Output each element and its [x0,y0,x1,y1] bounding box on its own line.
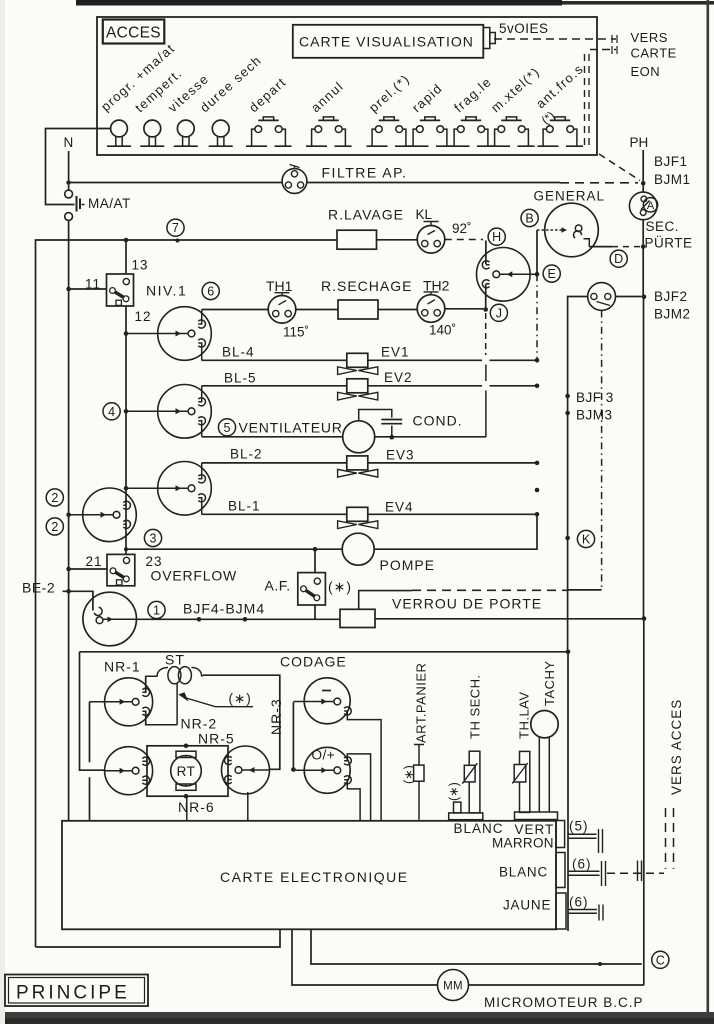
node dot under circled 7 [176,239,180,243]
thermistor TH.LAV box [514,765,526,783]
svg-text:KL: KL [416,207,433,222]
resistor R.LAVAGE [337,230,377,249]
svg-text:MA/AT: MA/AT [88,196,131,211]
cam switch M2 circle [158,385,212,439]
svg-text:NR-3: NR-3 [268,698,284,735]
push button 4 (rapid) [425,117,435,120]
dashed wire KL to H node [445,239,483,241]
push button 3 (prel.(*)) [384,117,394,120]
push button 1 (depart) [263,117,273,120]
scan artifact: left page edge strip [0,0,5,1024]
valve EV2 [347,379,368,393]
thermistor RT plates [176,751,196,757]
node junction inner box top right [566,650,571,655]
solenoid VERROU box [340,609,375,627]
node dot on C line [598,962,602,966]
board CARTE ELECTRONIQUE box [62,821,556,930]
svg-text:92˚: 92˚ [452,221,472,236]
svg-text:6: 6 [207,285,214,299]
filter FILTRE AP. symbol [282,169,307,194]
svg-text:EV3: EV3 [386,448,415,463]
svg-text:RT: RT [177,764,196,779]
wire MM to right rail [469,984,645,986]
node junction rail to M4 [66,513,71,518]
sensor TACHY circle [531,711,558,738]
wire vent to riser [375,436,486,438]
wire BE-2 into motor M5 [63,591,93,610]
svg-text:BJM1: BJM1 [654,172,691,187]
wire TH1 to resistor [296,309,338,311]
node junction bjf4 a [197,617,202,622]
wire pair (6) mid [568,871,600,875]
svg-text:115˚: 115˚ [283,325,309,340]
svg-text:(6): (6) [569,895,589,910]
pressure switch OVERFLOW contacts [123,557,129,563]
node junction cond [390,435,395,440]
arrow (*) pointer at ST tap [178,692,188,701]
node junction bus EV3 [535,461,540,466]
svg-text:BJM3: BJM3 [576,408,613,423]
node label B circled [521,209,538,226]
node junction N / filter line [66,180,71,185]
svg-text:PÜRTE: PÜRTE [645,236,693,251]
wire filtre ap. to PH [307,182,560,184]
wire right rail BJF2 to verrou [643,297,645,619]
wire pompe to bus corner [374,514,537,549]
dashed rail VERS ACCES [666,808,674,869]
svg-text:BE-2: BE-2 [22,580,55,596]
dash-dot wire E to bus [536,274,538,360]
svg-text:CARTE VISUALISATION: CARTE VISUALISATION [299,34,474,50]
motor MM circle [438,970,469,1001]
wire B-E vertical [536,230,538,274]
svg-text:K: K [582,533,591,547]
wire BL-4 line M1 to EV1 [202,359,347,361]
node junction bus EV4 [535,512,540,517]
node junction BE-2 [66,589,71,594]
svg-text:OVERFLOW: OVERFLOW [151,568,238,584]
svg-text:140˚: 140˚ [429,323,456,338]
resistor R.SECHAGE [338,300,378,319]
svg-text:VERS ACCES: VERS ACCES [669,699,684,795]
connector tab (6) mid [556,853,565,888]
svg-text:CARTE ELECTRONIQUE: CARTE ELECTRONIQUE [220,869,409,885]
svg-text:BLANC: BLANC [454,821,504,836]
sensor ART.PANIER lead [414,745,424,820]
wire verrou to right rail [375,618,644,620]
wire rail to overflow 21 [69,568,107,570]
rotary knob 2 (tempert.) [144,120,161,137]
svg-text:TACHY: TACHY [542,660,557,706]
dashed wire panel corner to PH [599,154,640,181]
svg-text:(∗): (∗) [229,691,252,706]
switch BJF2 symbol [588,283,616,311]
svg-text:NIV.1: NIV.1 [146,283,187,299]
wire inner box right edge [567,652,569,931]
connector tab (5) [556,821,565,848]
svg-text:prel.(*): prel.(*) [366,71,413,115]
svg-text:MARRON: MARRON [492,836,554,851]
svg-text:7: 7 [172,221,179,235]
sensor TH.LAV probe [520,751,530,812]
svg-text:BJF4-BJM4: BJF4-BJM4 [183,601,265,617]
cam switch M6 (sechage) circle [477,247,531,301]
wire right rail verrou to bottom [643,619,645,986]
node label C circled [652,951,669,968]
svg-text:EV4: EV4 [385,500,414,515]
svg-text:GENERAL: GENERAL [534,189,606,204]
label box ACCES [103,20,165,44]
wire board drop to C line [311,929,642,964]
motor POMPE circle [342,533,374,565]
switch SEC.PORTE symbol [642,186,644,193]
wire J vertical continues to vent line [485,313,487,355]
wire board drop to MM line [292,929,438,985]
node junction RT bottom [184,794,189,799]
svg-text:CARTE: CARTE [631,46,677,61]
svg-text:BJF1: BJF1 [654,154,688,169]
svg-text:VERROU DE PORTE: VERROU DE PORTE [392,596,542,612]
wire pair (5) [568,834,597,838]
node label K circled [577,530,594,547]
svg-text:B: B [525,212,533,226]
svg-text:CODAGE: CODAGE [280,654,347,670]
pedestal VERT [515,812,558,820]
svg-text:ST: ST [165,652,185,668]
rotary knob 1 (progr. +ma/at) [111,120,128,137]
node label 6 circled [202,282,219,299]
svg-text:COND.: COND. [413,413,463,429]
wire ST to NR-3 hook [203,675,280,769]
node junction BJF2 [642,295,647,300]
node label 2 circled (upper) [46,489,63,506]
dashed wire from 5vOIES connector [494,38,616,40]
wire EV2 to bus [368,385,537,387]
relay CODAGE minus exit [344,711,381,820]
valve EV4 [347,507,368,521]
thermostat TH2 symbol [417,295,445,323]
wire knob1 to left then down to MA/AT actuator [46,129,111,205]
connector tab (6) low [556,893,566,929]
svg-text:ACCES: ACCES [106,25,161,42]
wire H node into motor top hook [485,241,487,265]
wire BJF2 switch bottom dash-dot [601,310,603,589]
svg-text:(*): (*) [539,108,558,127]
push button 7 (ant.fro.s) [555,117,565,120]
wire RT frame bottom drop [186,796,188,820]
transformer ST [146,668,168,677]
svg-text:VERS: VERS [631,30,668,45]
svg-text:21: 21 [86,554,103,569]
svg-text:m.xtel(*): m.xtel(*) [488,64,543,115]
wire inner box left edge + feed to NR lower-left [80,652,105,770]
MA/AT switch contacts [65,190,73,198]
relay CODAGE minus circle [304,678,350,724]
svg-text:D: D [614,252,623,266]
cam switch M4 circle [83,488,137,542]
thermistor RT circle [171,756,202,787]
scan artifact: right page edge line [707,0,710,1013]
node label 3 circled [144,529,161,546]
node junction E [535,272,540,277]
node junction bjf4 b [243,617,248,622]
wire resistor to TH2 [378,309,417,311]
switch A.F. box [298,573,326,605]
wire inner-left rail (MA/AT down to carte electronique) [68,220,70,821]
dashed coupling verrou to jog [359,591,412,610]
motor VENTILATEUR circle [343,421,375,453]
wire BJF2 switch to rail [616,296,642,298]
svg-text:BL-1: BL-1 [228,499,261,514]
node junction RT top [184,744,189,749]
pressure switch OVERFLOW box [107,554,135,585]
node dot bus mid [535,488,540,493]
push button 2 (annul) [323,117,333,120]
wire right rail D to BJF2 [642,247,644,297]
label minus in codage [322,690,331,692]
node label 4 circled [103,403,120,420]
svg-text:11: 11 [85,277,101,292]
thermostat KL symbol [417,226,445,254]
node label 5 circled [218,419,235,436]
node junction bus EV2 [535,384,540,389]
svg-text:4: 4 [108,405,115,419]
scan artifact: bottom page edge band [0,1012,714,1024]
node junction rail 21 [66,567,71,572]
relay NR-1 circle [105,678,153,726]
svg-text:(5): (5) [569,819,589,834]
panel ACCES enclosure box [97,17,597,155]
svg-text:annul: annul [308,78,347,115]
wire AF box to bjf4 line [314,605,316,619]
svg-text:R.SECHAGE: R.SECHAGE [321,278,412,294]
svg-text:NR-6: NR-6 [178,799,215,815]
svg-text:1: 1 [153,604,160,618]
dashed wire (6) to vers acces [607,872,664,874]
connector tab 5vOIES on card [483,28,490,49]
svg-text:A: A [647,200,655,212]
svg-text:5vOIES: 5vOIES [499,21,549,36]
node junction PH [641,181,646,186]
node label 7 circled [167,219,184,236]
svg-text:BL-2: BL-2 [230,447,263,462]
node label E circled [543,265,560,282]
relay NR lower-left circle [105,747,153,795]
svg-text:VENTILATEUR: VENTILATEUR [239,420,343,436]
cam switch M5 contacts [94,607,102,615]
pedestal BLANC [449,813,483,820]
wire ST tap down [176,684,178,725]
svg-text:FILTRE AP.: FILTRE AP. [322,165,408,181]
pressure switch NIV.1 box [107,274,134,306]
svg-text:EON: EON [631,64,661,79]
wire BL-5 line M2 to EV2 [202,385,347,387]
node junction motor3 feed [124,486,129,491]
svg-text:(6): (6) [572,857,592,872]
svg-text:BJF2: BJF2 [654,289,688,304]
svg-text:NR-5: NR-5 [198,731,235,747]
wire BL-1 line M3 to EV4 [202,513,347,515]
svg-text:PRINCIPE: PRINCIPE [16,983,130,1004]
wire BJF2 switch left to inner rail [568,297,588,652]
relay CODAGE O/+ exits [344,754,371,820]
svg-text:MM: MM [443,981,463,993]
wire NR-1 top exit to ST [145,676,147,692]
wire ventilateur line [202,436,343,438]
wire pompe line to AF box [314,549,316,572]
node label 2 circled (lower) [46,518,63,535]
wire 13 from line7 to niv1 box [125,240,127,274]
wire pompe line [126,548,342,550]
wire left rail bottom corner [36,929,281,947]
svg-text:ant.fro.s: ant.fro.s [533,61,587,111]
frame NR-5/NR-6 rect [147,746,228,796]
wire codage left riser [292,702,294,769]
svg-text:EV1: EV1 [381,345,410,360]
svg-text:TH.LAV: TH.LAV [517,691,532,739]
wire N terminal down [68,151,70,180]
MA/AT actuator bars [76,196,78,212]
svg-text:ART.PANIER: ART.PANIER [414,663,429,743]
svg-text:5: 5 [224,421,231,435]
cam switch M5 (BE-2) circle [83,592,137,646]
wire TH2 line to motor bottom hook [485,284,487,309]
svg-text:C: C [656,953,665,967]
wire EV4 to bus [368,513,537,515]
svg-text:O/+: O/+ [312,748,336,763]
rotary knob 4 (duree sech) [212,120,229,137]
svg-text:rapid: rapid [409,80,445,115]
node junction K [565,536,570,541]
title box PRINCIPE [5,975,148,1007]
node junction J line [483,307,488,312]
resistor ART.PANIER [414,765,424,781]
node junction verrou rail [642,616,647,621]
node label H circled [488,228,505,245]
svg-text:N: N [64,135,74,150]
wire pair (6) low [568,910,597,914]
svg-text:NR-1: NR-1 [104,659,141,675]
wire TH2 to J node [445,308,484,310]
dashed wire to VERS CARTE EON [590,49,616,51]
wire EV1 to bus [368,359,537,361]
svg-text:NR-2: NR-2 [181,716,218,732]
wire NR-1 bottom exit [146,712,178,725]
motor GENERAL circle [545,203,599,257]
cam switch M6 hook steps [486,265,490,284]
motor GENERAL interior [537,229,563,231]
capacitor COND. loop [359,410,392,421]
node junction bus EV1 [535,358,540,363]
wire rail to niv1 contact 11 [69,288,107,290]
svg-text:J: J [496,306,502,320]
svg-text:(∗): (∗) [328,579,352,595]
pressure switch NIV.1 contacts [123,279,129,285]
thermistor TH SECH box [464,765,475,782]
svg-text:BL-4: BL-4 [222,345,255,360]
svg-text:POMPE: POMPE [380,557,436,573]
node junction D line [641,244,646,249]
svg-text:PH: PH [630,135,649,150]
node junction rail 11 [66,287,71,292]
svg-text:E: E [548,267,556,281]
svg-text:BJM2: BJM2 [654,307,691,322]
valve EV1 [347,353,368,367]
scan artifact: top page edge bar [76,0,562,6]
relay CODAGE O/+ circle [304,747,350,793]
node label 1 circled [148,601,165,618]
node label A circled [643,198,657,212]
wire NR lower-right bottom drop [247,792,249,820]
sensor TACHY leads [539,737,549,812]
wire BL-2 line M3 to EV3 [202,462,347,464]
svg-text:TH1: TH1 [266,278,293,294]
cam switch M3 circle [158,462,212,516]
wire NR-1 left drop to carte [89,702,91,821]
svg-text:H: H [492,230,501,244]
svg-text:BLANC: BLANC [499,865,548,880]
svg-text:2: 2 [51,520,58,534]
sensor TH SECH probe [469,751,480,813]
push button 5 (frag.le) [466,117,476,120]
card box CARTE VISUALISATION [293,25,484,58]
svg-text:SEC.: SEC. [646,219,680,234]
rotary knob 3 (vitesse) [177,120,194,137]
node junction BJM3 [565,411,570,416]
wire resistor to KL [377,239,418,241]
svg-text:EV2: EV2 [384,370,413,385]
node junction motor2 feed [124,409,129,414]
switch A.F. contacts [314,578,320,584]
wire inner box top edge [80,651,569,653]
push button 6 (m.xtel(*)) [506,117,516,120]
wire N to filtre ap. [71,182,282,184]
node junction codage riser [291,767,296,772]
node junction pompe feed corner [124,547,128,551]
svg-text:depart: depart [246,74,289,115]
wire EV3 to bus [368,462,537,464]
node junction motor1 feed [124,331,129,336]
svg-text:A.F.: A.F. [265,578,291,594]
svg-text:JAUNE: JAUNE [503,898,551,913]
node label D circled [610,250,627,267]
svg-text:R.LAVAGE: R.LAVAGE [328,207,404,223]
wire lavage feed line [36,240,338,947]
wire TH1 line [202,309,269,311]
wire general motor to sec porte node [589,246,612,248]
node junction niv1 top feed [124,238,129,243]
relay NR lower-right circle [222,746,270,794]
svg-text:3: 3 [150,532,157,546]
node junction AF tap [313,547,318,552]
node label J circled [490,304,507,321]
node junction BJF3 [565,394,570,399]
svg-text:12: 12 [135,309,152,324]
svg-text:MICROMOTEUR B.C.P: MICROMOTEUR B.C.P [484,995,644,1010]
svg-text:TH2: TH2 [423,278,450,294]
svg-text:(∗): (∗) [447,782,461,801]
valve EV3 [347,456,368,470]
svg-text:BJF 3: BJF 3 [576,390,614,405]
wire jog 567 to 601 rails [568,589,602,591]
svg-text:2: 2 [51,491,58,505]
svg-text:13: 13 [132,258,149,273]
wire BJF4 line to verrou and rail [137,618,340,620]
svg-text:BL-5: BL-5 [224,371,257,386]
svg-text:TH SECH.: TH SECH. [468,674,483,739]
wire niv1 12 down the selector rail [125,306,127,554]
dashed connector pair inside panel right edge [584,54,586,148]
